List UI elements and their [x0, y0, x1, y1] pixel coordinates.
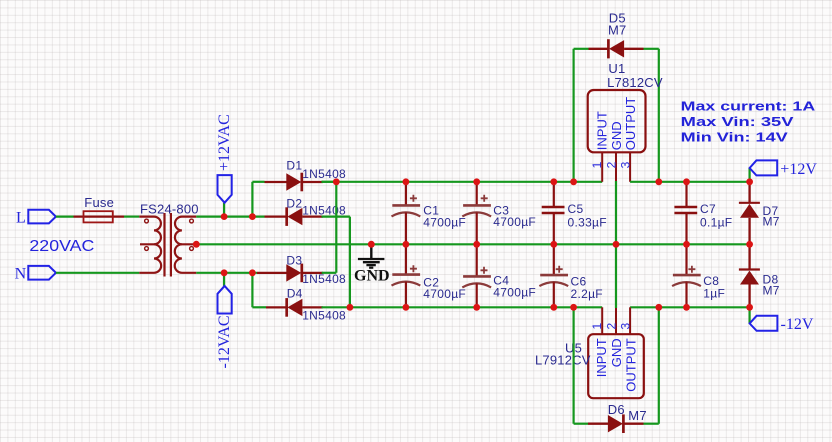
diode D6 M7: [588, 402, 647, 433]
note max ratings text: [681, 99, 816, 145]
junction D2-D4 anode node: [347, 304, 354, 311]
junction D1-D3 cathode node: [333, 178, 340, 185]
svg-text:2.2µF: 2.2µF: [571, 287, 603, 301]
pin 1 U1: [601, 152, 603, 182]
diode D7 M7: [739, 182, 780, 245]
junction C7-C8 mid: [683, 241, 690, 248]
wire +12VAC stem: [223, 203, 225, 217]
pin 2 U1: [615, 152, 617, 181]
svg-text:4700µF: 4700µF: [493, 285, 536, 299]
svg-text:2: 2: [604, 323, 618, 330]
wire D6 right horizontal: [644, 423, 659, 425]
capacitor C2 4700uF: [392, 244, 467, 307]
junction D4 branch: [249, 269, 256, 276]
svg-text:1N5408: 1N5408: [302, 167, 346, 181]
svg-text:1: 1: [590, 161, 604, 168]
svg-text:0.33µF: 0.33µF: [568, 216, 607, 230]
wire D2 to corner: [322, 216, 350, 218]
svg-text:M7: M7: [763, 283, 780, 297]
svg-text:U1: U1: [608, 61, 625, 76]
junction C3 top: [473, 178, 480, 185]
wire D1 branch vertical: [251, 182, 253, 217]
svg-text:GND: GND: [609, 338, 624, 367]
op-amp U1 L7812CV regulator box: [588, 61, 663, 152]
wire -12V port stem: [748, 307, 750, 323]
svg-text:-12V: -12V: [781, 316, 814, 333]
junction C5-C6 mid: [550, 241, 557, 248]
junction C5 top: [550, 178, 557, 185]
wire +12V port stem: [748, 168, 750, 182]
svg-text:1µF: 1µF: [703, 286, 725, 300]
svg-text:GND: GND: [354, 267, 390, 284]
svg-text:220VAC: 220VAC: [29, 238, 94, 255]
wire D3 to corner: [322, 272, 337, 274]
junction regulators GND: [613, 241, 620, 248]
wire U1 GND pin down: [615, 181, 617, 244]
wire L to fuse: [56, 216, 74, 218]
svg-text:+12V: +12V: [780, 161, 817, 178]
junction C1-C2 mid: [403, 241, 410, 248]
pin 1 U5: [601, 307, 603, 333]
svg-text:4700µF: 4700µF: [493, 215, 536, 229]
wire bottom rail unregulated: [322, 306, 603, 308]
junction C8 bottom: [683, 304, 690, 311]
svg-text:1N5408: 1N5408: [302, 308, 346, 322]
junction D1 branch: [249, 213, 256, 220]
svg-text:Min Vin: 14V: Min Vin: 14V: [681, 130, 788, 145]
capacitor C8 1uF: [672, 244, 725, 307]
junction +12VAC node: [221, 213, 228, 220]
wire fuse to transformer: [124, 216, 139, 218]
svg-text:D1: D1: [286, 158, 302, 172]
svg-text:Max Vin: 35V: Max Vin: 35V: [681, 114, 794, 129]
port +12V: [750, 160, 818, 178]
diode D4 1N5408: [266, 287, 346, 323]
junction C2 bottom: [403, 304, 410, 311]
svg-text:L: L: [16, 209, 26, 226]
wire top rail regulated: [630, 181, 750, 183]
svg-text:2: 2: [604, 161, 618, 168]
junction D6 left: [570, 304, 577, 311]
diode D5 M7: [589, 10, 644, 58]
wire D6 left vertical: [572, 307, 574, 423]
svg-text:-12VAC: -12VAC: [216, 315, 233, 368]
pin 3 U5: [629, 307, 631, 333]
wire D5 right horizontal: [644, 48, 659, 50]
svg-text:3: 3: [618, 323, 632, 330]
wire D4 branch vertical: [251, 273, 253, 308]
svg-text:4700µF: 4700µF: [423, 287, 466, 301]
svg-text:M7: M7: [763, 215, 780, 229]
junction +12V port: [746, 178, 753, 185]
wire D1 to junction: [322, 181, 337, 183]
wire D5 left vertical: [572, 49, 574, 182]
svg-text:C5: C5: [568, 202, 584, 216]
capacitor C6 2.2uF: [539, 244, 603, 307]
port -12VAC: [216, 286, 233, 369]
svg-text:4700µF: 4700µF: [423, 215, 466, 229]
svg-text:D3: D3: [286, 254, 302, 268]
junction D5 left: [570, 178, 577, 185]
wire D3 vertical up: [335, 182, 337, 273]
diode D1 1N5408: [265, 158, 347, 191]
junction C7 top: [683, 178, 690, 185]
pin 2 U5: [615, 308, 617, 334]
wire N to transformer: [56, 272, 139, 274]
svg-text:FS24-800: FS24-800: [140, 202, 199, 217]
capacitor C4 4700uF: [462, 244, 536, 307]
junction C6 bottom: [550, 304, 557, 311]
junction -12VAC node: [221, 269, 228, 276]
wire D5 left horizontal: [574, 48, 589, 50]
junction -12V port: [746, 304, 753, 311]
svg-text:D2: D2: [286, 197, 302, 211]
junction C3-C4 mid: [473, 241, 480, 248]
junction transformer center tap: [193, 241, 200, 248]
svg-text:M7: M7: [608, 22, 626, 37]
svg-text:C7: C7: [700, 202, 716, 216]
svg-text:Max current: 1A: Max current: 1A: [681, 99, 816, 114]
capacitor C7 0.1uF: [674, 182, 732, 245]
svg-text:INPUT: INPUT: [594, 111, 609, 150]
transformer T1 FS24-800: [139, 213, 196, 277]
svg-text:INPUT: INPUT: [594, 338, 609, 377]
wire bottom rail regulated: [630, 306, 750, 308]
svg-text:N: N: [15, 266, 27, 283]
wire U5 GND pin up: [615, 244, 617, 308]
svg-text:0.1µF: 0.1µF: [700, 216, 732, 230]
op-amp U5 L7912CV regulator box: [535, 334, 644, 398]
wire GND rail: [196, 243, 750, 245]
ground GND: [354, 244, 390, 284]
pin 3 U1: [629, 152, 631, 182]
capacitor C5 0.33uF: [542, 182, 607, 245]
wire -12VAC stem: [223, 273, 225, 286]
junction D6 right: [655, 304, 662, 311]
wire D4 row left: [252, 306, 266, 308]
port +12VAC: [216, 114, 233, 202]
junction C1 top: [403, 178, 410, 185]
svg-text:+12VAC: +12VAC: [216, 114, 233, 171]
diode D8 M7: [739, 244, 780, 307]
wire D6 left horizontal: [574, 423, 588, 425]
wire D5 right vertical: [658, 49, 660, 182]
svg-text:L7912CV: L7912CV: [535, 353, 591, 368]
wire secondary bottom row: [196, 272, 257, 274]
junction D7-D8 node: [746, 241, 753, 248]
junction C4 bottom: [473, 304, 480, 311]
svg-text:3: 3: [618, 161, 632, 168]
port L: [16, 209, 56, 226]
wire secondary top row: [196, 216, 264, 218]
junction GND symbol: [368, 241, 375, 248]
svg-text:1: 1: [590, 323, 604, 330]
svg-text:Fuse: Fuse: [84, 195, 114, 210]
svg-text:1N5408: 1N5408: [302, 272, 346, 286]
wire top rail unregulated: [322, 181, 603, 183]
svg-text:OUTPUT: OUTPUT: [623, 97, 638, 151]
diode D3 1N5408: [257, 254, 346, 287]
port -12V: [750, 316, 814, 333]
wire D2 vertical down: [349, 217, 351, 308]
port N: [15, 266, 56, 283]
fuse Fuse: [74, 195, 125, 223]
svg-text:D4: D4: [287, 287, 303, 301]
wire D6 right vertical: [658, 307, 660, 423]
diode D2 1N5408: [265, 197, 347, 226]
svg-text:OUTPUT: OUTPUT: [624, 338, 639, 392]
wire D1 row left: [252, 181, 264, 183]
svg-text:M7: M7: [628, 408, 646, 423]
svg-text:L7812CV: L7812CV: [607, 75, 663, 90]
capacitor C1 4700uF: [392, 182, 467, 245]
capacitor C3 4700uF: [462, 182, 536, 245]
svg-text:D6: D6: [608, 402, 625, 417]
svg-text:GND: GND: [609, 121, 624, 150]
junction D5 right: [655, 178, 662, 185]
